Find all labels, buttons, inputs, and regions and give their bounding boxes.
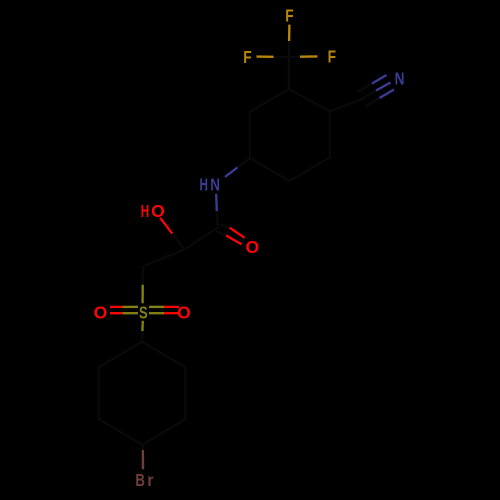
svg-text:r: r (147, 470, 153, 490)
benzene ring1 (cyano/trifluoromethyl phenyl) (250, 89, 330, 181)
wire F-left to CF3 carbon (257, 55, 274, 58)
svg-text:O: O (151, 201, 165, 221)
svg-text:O: O (94, 302, 108, 322)
wire F-top to CF3 carbon (288, 25, 291, 41)
svg-text:N: N (210, 175, 220, 195)
svg-text:F: F (243, 47, 252, 67)
svg-text:O: O (177, 302, 191, 322)
wire alpha C to hydroxyl O (172, 234, 184, 250)
wire ring1 bottom-left to amide N (237, 158, 249, 168)
wire amide N down to carbonyl C (215, 194, 218, 212)
wire S down to ring2 top (141, 321, 144, 331)
carbonyl C=O double bond (216, 224, 245, 244)
svg-text:F: F (328, 46, 337, 66)
svg-text:N: N (395, 69, 405, 89)
S=O left double bond (110, 307, 138, 313)
svg-text:S: S (139, 303, 148, 323)
wire ring1 to nitrile carbon (330, 98, 365, 111)
wire carbonyl C to alpha C (185, 228, 218, 250)
wire CF3 carbon down to ring1 top (288, 57, 290, 89)
wire alpha C to CH2 (143, 249, 185, 266)
svg-text:O: O (246, 237, 260, 257)
wire ring2 bottom to Br (141, 445, 144, 450)
S=O right double bond (149, 307, 179, 313)
benzene ring2 (bromophenyl) (99, 342, 185, 445)
svg-text:H: H (199, 175, 208, 195)
wire F-right to CF3 carbon (300, 55, 318, 58)
wire CH2 down to sulfonyl S (142, 266, 144, 285)
svg-text:F: F (285, 5, 294, 25)
nitrile triple bond C#N (358, 75, 395, 107)
svg-text:H: H (141, 201, 150, 221)
svg-text:B: B (135, 470, 145, 490)
